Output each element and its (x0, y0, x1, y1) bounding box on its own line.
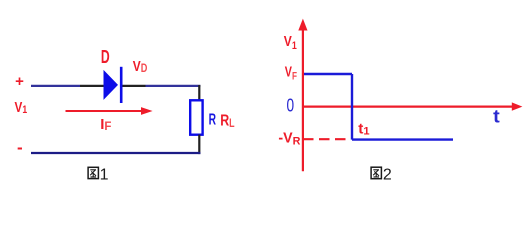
diode D cathode bar (120, 67, 123, 103)
svg-text:V1: V1 (284, 33, 297, 52)
wire bottom navy (31, 152, 200, 154)
wire right vertical upper black (198, 85, 200, 101)
svg-text:D: D (101, 47, 110, 67)
wire right vertical lower black (198, 135, 200, 155)
svg-text:VF: VF (285, 64, 297, 82)
wire top left blue (31, 85, 80, 87)
caption fig2 glyph tu (371, 167, 381, 179)
svg-text:-VR: -VR (278, 130, 300, 147)
waveform -VR segment (352, 138, 453, 140)
wire top right blue (146, 85, 201, 87)
svg-text:-: - (17, 138, 23, 157)
svg-text:0: 0 (287, 96, 295, 116)
svg-text:t1: t1 (358, 120, 369, 137)
svg-text:IF: IF (100, 116, 111, 133)
graph vertical axis V1 (302, 27, 304, 171)
svg-text:1: 1 (100, 166, 109, 183)
wire top black to diode anode (80, 85, 104, 87)
caption fig1 glyph tu (88, 167, 98, 178)
svg-text:R: R (209, 111, 217, 128)
svg-text:RL: RL (220, 112, 234, 129)
resistor R rectangle (190, 100, 202, 134)
svg-text:2: 2 (383, 166, 392, 183)
waveform VF segment (304, 73, 352, 75)
wire top black from cathode (123, 85, 146, 87)
svg-text:+: + (15, 73, 24, 90)
graph horizontal axis t (303, 105, 513, 107)
svg-text:VD: VD (133, 58, 148, 75)
svg-text:t: t (493, 107, 500, 127)
svg-text:V1: V1 (15, 99, 28, 116)
dashed -VR reference line (303, 138, 349, 140)
current arrow IF (66, 110, 143, 112)
diode D triangle (104, 70, 119, 100)
waveform step down (351, 74, 353, 140)
